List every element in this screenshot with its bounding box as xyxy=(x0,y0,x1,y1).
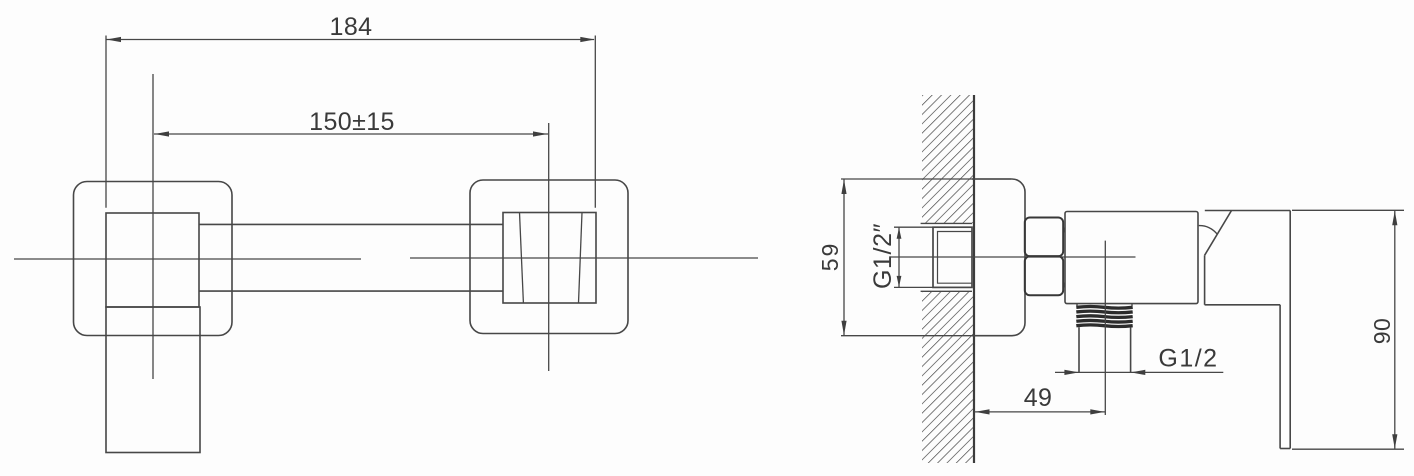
svg-text:90: 90 xyxy=(1369,318,1395,345)
svg-text:G1/2: G1/2 xyxy=(1158,345,1218,373)
svg-text:G1/2″: G1/2″ xyxy=(869,223,897,289)
svg-text:49: 49 xyxy=(1024,384,1053,412)
svg-text:150±15: 150±15 xyxy=(309,108,395,136)
svg-text:59: 59 xyxy=(817,242,843,272)
svg-text:184: 184 xyxy=(330,13,373,41)
